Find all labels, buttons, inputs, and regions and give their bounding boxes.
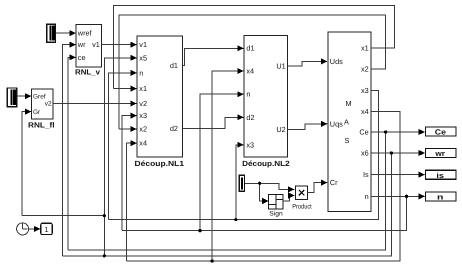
junction bottom line / x5 vertical (103, 254, 106, 257)
svg-text:x2: x2 (361, 65, 369, 74)
block Decoup.NL2 (242, 36, 290, 169)
wire Is output (371, 174, 425, 176)
svg-text:Sign: Sign (269, 210, 283, 217)
wire Sign to product (283, 196, 294, 202)
svg-text:x4: x4 (139, 139, 147, 148)
block MAS (328, 32, 371, 211)
wire clock to 1 (29, 228, 40, 230)
junction on Cr source wire (258, 182, 261, 185)
svg-text:RNL_fl: RNL_fl (28, 121, 55, 130)
wire Ce output (371, 131, 425, 133)
wire x4 feedback (127, 111, 401, 261)
junction bottom line / NL2 x4 vertical (211, 259, 214, 262)
svg-text:Cr: Cr (330, 178, 338, 187)
svg-text:x1: x1 (139, 84, 147, 93)
svg-text:x6: x6 (361, 149, 369, 158)
svg-text:x4: x4 (361, 107, 369, 116)
wire x5 input (from bottom) (104, 58, 136, 256)
svg-text:Uds: Uds (330, 57, 343, 66)
wire x3 input (from bottom) (122, 116, 137, 231)
wire wr feedback vertical (63, 45, 76, 256)
svg-text:x3: x3 (246, 140, 254, 149)
junction on Ce output wire (384, 130, 387, 133)
source icon (Gref input) (7, 88, 16, 107)
wire flux line to Gr/x5 (22, 215, 105, 217)
output block Ce (426, 127, 456, 137)
wire x4 input NL2 (from bottom) (212, 71, 243, 261)
source icon (Cr constant) (239, 175, 244, 191)
svg-text:wr: wr (77, 40, 86, 49)
block Sign (269, 194, 283, 217)
block Decoup.NL1 (135, 36, 185, 168)
junction on n output wire (405, 195, 408, 198)
svg-text:x2: x2 (139, 125, 147, 134)
wire x2 feedback (top inner) (119, 15, 386, 129)
source icon (wref input) (47, 24, 56, 42)
wire Gr feedback (22, 112, 31, 216)
svg-text:U2: U2 (276, 125, 285, 134)
svg-text:Uqs: Uqs (330, 119, 343, 128)
output block n (426, 192, 456, 202)
wire x2 input (from top line) (119, 128, 137, 130)
svg-text:d1: d1 (170, 61, 178, 70)
svg-text:x5: x5 (139, 53, 147, 62)
svg-text:wref: wref (77, 29, 93, 38)
svg-text:Découp.NL2: Découp.NL2 (242, 159, 290, 168)
wire x1 feedback (top outer) (114, 6, 395, 89)
svg-text:n: n (365, 192, 369, 201)
block RNL_fl (28, 89, 55, 130)
svg-text:d2: d2 (170, 124, 178, 133)
wire v1 (RNL_v to NL1) (102, 44, 137, 46)
clock (17, 223, 29, 235)
svg-text:x1: x1 (361, 44, 369, 53)
junction bottom line / NL2 n vertical (198, 229, 201, 232)
wire n feedback branch (122, 196, 407, 230)
junction on x6/wr output wire (390, 151, 393, 154)
svg-text:n: n (139, 68, 143, 77)
svg-text:v1: v1 (92, 40, 100, 49)
wire x6 output to wr (371, 152, 425, 154)
wire Ce feedback branch (68, 132, 386, 250)
svg-text:Product: Product (292, 203, 312, 210)
svg-text:v1: v1 (139, 40, 147, 49)
svg-text:S: S (345, 136, 350, 145)
svg-text:x4: x4 (246, 67, 254, 76)
wire U2 to Uqs (288, 124, 328, 130)
wire n input (from bottom) (109, 73, 137, 220)
svg-text:v2: v2 (45, 100, 52, 107)
wire d1 (NL1 to NL2) (183, 48, 244, 65)
svg-text:is: is (436, 171, 444, 180)
svg-text:x3: x3 (139, 111, 147, 120)
svg-text:Découp.NL1: Découp.NL1 (135, 159, 185, 168)
wire ce feedback vertical (68, 57, 76, 250)
wire v2 (RNL_fl to NL1) (53, 103, 136, 105)
wire Cr source to product (245, 183, 294, 189)
wire Gref (17, 95, 31, 97)
wire n output (371, 195, 425, 197)
svg-text:Gr: Gr (33, 109, 41, 116)
output block wr (426, 149, 456, 159)
block 1 (41, 223, 52, 234)
wire U1 to Uds (288, 61, 328, 66)
svg-text:Ce: Ce (359, 128, 368, 137)
wire n input NL2 (from bottom) (200, 94, 244, 231)
wire x3 feedback (109, 90, 379, 219)
junction flux line / x5 vertical (103, 214, 106, 217)
svg-text:A: A (344, 118, 349, 127)
block Product (292, 186, 312, 211)
svg-text:v2: v2 (139, 99, 147, 108)
svg-text:d1: d1 (246, 44, 254, 53)
svg-text:RNL_v: RNL_v (75, 68, 101, 77)
svg-text:M: M (346, 99, 352, 108)
block RNL_v (75, 25, 102, 77)
svg-text:Ce: Ce (435, 128, 446, 137)
svg-text:n: n (437, 193, 444, 202)
wire wref (56, 32, 76, 34)
wire x3 input NL2 (from bottom) (236, 145, 244, 220)
svg-text:n: n (246, 90, 250, 99)
svg-text:1: 1 (44, 225, 48, 234)
svg-text:Is: Is (363, 170, 369, 179)
wire x6 feedback branch (63, 153, 392, 256)
output block is (426, 170, 456, 180)
svg-text:d2: d2 (246, 113, 254, 122)
wire Cr source to Sign (260, 183, 269, 201)
svg-text:U1: U1 (276, 61, 285, 70)
wire x4 input (from bottom) (127, 143, 137, 261)
svg-text:wr: wr (434, 149, 445, 158)
wire product to Cr (308, 183, 328, 193)
wire d2 (NL1 to NL2) (183, 117, 244, 128)
junction bottom line / NL2 x3 vertical (234, 218, 237, 221)
svg-text:ce: ce (78, 53, 86, 62)
svg-text:x3: x3 (361, 86, 369, 95)
wire x1 input (from top line) (114, 88, 137, 90)
